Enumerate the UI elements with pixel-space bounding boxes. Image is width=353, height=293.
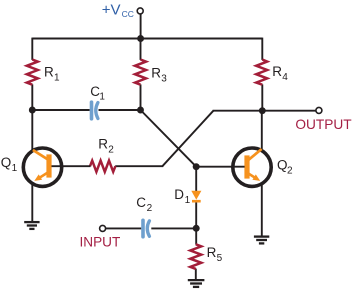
resistor R2 (90, 161, 115, 172)
wire: top supply rail (32, 38, 262, 40)
svg-text:2: 2 (108, 144, 114, 155)
diode D1 triangle (191, 191, 201, 200)
diode D1 cathode bar (192, 200, 201, 203)
junction: Q1 collector / C1 node (29, 107, 36, 114)
resistor R3 (135, 60, 146, 85)
terminal: OUTPUT open circle (316, 107, 322, 113)
capacitor C2 left plate (141, 220, 145, 236)
svg-text:4: 4 (282, 72, 288, 83)
terminal: INPUT open circle (100, 225, 106, 231)
svg-text:D: D (174, 187, 184, 202)
transistor Q1 emitter stroke (39, 173, 47, 178)
wire: C1 right plate to R3 node (99, 109, 141, 111)
svg-text:R: R (207, 245, 217, 260)
wire: R1 top lead (31, 38, 33, 60)
label R4 (272, 64, 288, 83)
wire: R3 top lead (140, 39, 142, 60)
label R5 (207, 245, 223, 264)
svg-text:2: 2 (147, 203, 153, 214)
wire: Q1 collector node to C1 left plate (32, 109, 89, 111)
transistor Q2 body circle (233, 148, 271, 186)
wire: R5 bottom lead to ground (195, 269, 197, 280)
transistor Q1 emitter arrowhead (34, 174, 42, 181)
wire: R4 bottom lead to output node (261, 84, 263, 110)
svg-text:R: R (44, 65, 54, 80)
capacitor C1 right plate (curved) (96, 103, 98, 119)
wire: diagonal from C1/R3 node down to Q2 base node (141, 110, 197, 167)
svg-text:+V: +V (102, 1, 121, 18)
transistor Q1 collector stroke (33, 150, 48, 159)
capacitor C1 left plate (90, 102, 94, 119)
label R2 (98, 136, 114, 155)
wire: Q1 emitter down to ground (31, 183, 33, 222)
ground (Q1 emitter) (24, 222, 39, 229)
wire: R1 bottom lead down to Q1 collector (31, 84, 33, 150)
capacitor C2 right plate (curved) (147, 221, 149, 237)
svg-text:2: 2 (287, 166, 293, 177)
transistor Q1 base bar (46, 154, 51, 177)
label Q2 (277, 158, 293, 177)
junction: Q2 base / D1 node (193, 163, 200, 170)
wire: Q2 collector up to output node (261, 111, 263, 151)
label D1 (174, 187, 190, 206)
svg-text:CC: CC (122, 9, 134, 19)
svg-text:5: 5 (217, 253, 223, 264)
wire: D1 cathode down to input node (195, 202, 197, 229)
wire: R5 top lead (195, 228, 197, 244)
svg-text:Q: Q (1, 155, 12, 170)
label Q1 (1, 155, 18, 174)
wire: diagonal from R2 corner up to output branch corner (162, 111, 213, 167)
transistor Q2 emitter stroke (247, 173, 255, 178)
wire: corner to output node (213, 110, 263, 112)
wire: Q2 base lead from node (196, 166, 244, 168)
wire: C2 right plate to input node (151, 227, 196, 229)
wire: Q1 base lead to R2 (52, 165, 91, 167)
transistor Q2 emitter arrowhead (252, 174, 260, 181)
wire: R2 right lead to corner (115, 165, 163, 167)
svg-text:Q: Q (277, 158, 288, 173)
wire: Q2 base node down to D1 anode (195, 167, 197, 192)
wire: VCC drop from terminal to top rail (140, 14, 142, 39)
wire: R3 bottom lead to node (140, 84, 142, 110)
transistor Q1 body circle (23, 148, 61, 186)
svg-text:1: 1 (185, 195, 191, 206)
junction: C2 / D1 / R5 input node (193, 225, 200, 232)
svg-text:1: 1 (12, 163, 18, 174)
transistor Q2 base bar (244, 155, 249, 178)
label R1 (44, 65, 60, 84)
wire: Q2 emitter down to ground (261, 184, 263, 236)
label C2 (136, 195, 152, 214)
svg-text:1: 1 (99, 92, 105, 103)
resistor R1 (27, 60, 38, 85)
resistor R4 (256, 60, 267, 85)
svg-text:3: 3 (161, 74, 167, 85)
resistor R5 (190, 244, 201, 269)
label R3 (151, 66, 167, 85)
svg-text:1: 1 (54, 73, 60, 84)
terminal: +VCC open circle (137, 8, 143, 14)
transistor Q2 collector stroke (249, 149, 262, 160)
junction: Q2 collector / R4 / output node (259, 107, 266, 114)
wire: output node to OUTPUT terminal (262, 110, 316, 112)
svg-text:R: R (151, 66, 161, 81)
svg-text:OUTPUT: OUTPUT (295, 117, 352, 132)
junction: VCC rail node (137, 35, 144, 42)
ground (Q2 emitter) (254, 237, 269, 244)
label +VCC (102, 1, 134, 19)
ground (R5 bottom) (188, 280, 205, 287)
label C1 (90, 84, 105, 103)
svg-text:C: C (136, 195, 146, 210)
svg-text:R: R (272, 64, 282, 79)
wire: INPUT terminal to C2 left plate (106, 227, 142, 229)
svg-text:R: R (98, 136, 108, 151)
wire: R4 top lead (261, 38, 263, 60)
junction: C1 / R3 node (137, 107, 144, 114)
svg-text:INPUT: INPUT (80, 235, 121, 250)
